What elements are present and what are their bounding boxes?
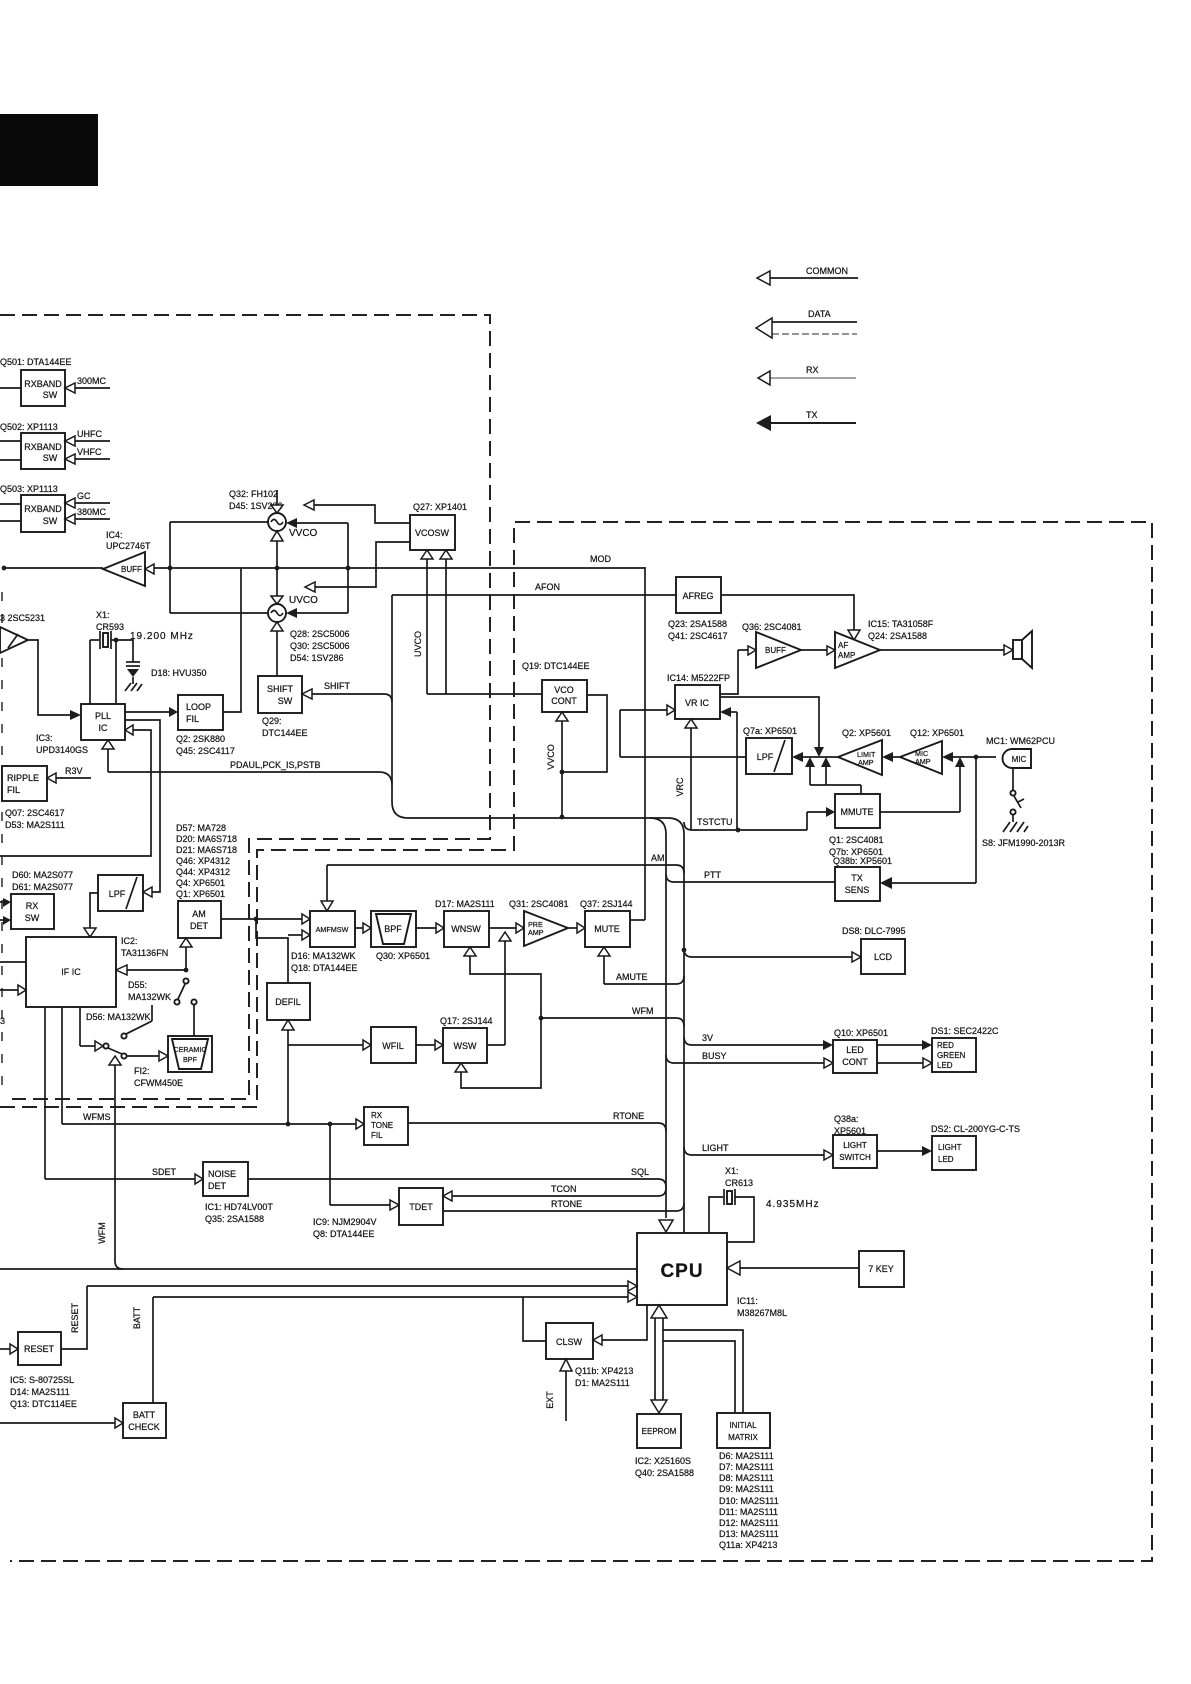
wire BATT to CPU xyxy=(132,1292,637,1403)
svg-text:SDET: SDET xyxy=(152,1167,177,1177)
switch LIGHT SWITCH box xyxy=(833,1135,877,1168)
wire VCOSW bottom pins xyxy=(413,550,542,694)
svg-text:380MC: 380MC xyxy=(77,507,107,517)
svg-text:D16: MA132WK: D16: MA132WK xyxy=(291,951,356,961)
svg-text:PLL: PLL xyxy=(95,711,111,721)
display RED GREEN LED box xyxy=(932,1038,976,1072)
svg-text:Q35: 2SA1588: Q35: 2SA1588 xyxy=(205,1214,264,1224)
svg-text:SW: SW xyxy=(43,453,58,463)
svg-text:RESET: RESET xyxy=(24,1344,55,1354)
wire PLL to LPF xyxy=(125,720,160,897)
svg-text:M38267M8L: M38267M8L xyxy=(737,1308,787,1318)
svg-text:AMP: AMP xyxy=(858,758,874,767)
VCO CONT box xyxy=(542,680,587,712)
wire WFIL to WSW xyxy=(416,1040,443,1050)
bus CPU to EEPROM xyxy=(651,1305,667,1413)
filter LPF left box xyxy=(98,875,143,911)
wires into RX SW xyxy=(0,898,11,925)
svg-text:Q38b: XP5601: Q38b: XP5601 xyxy=(833,856,892,866)
mute MMUTE box xyxy=(835,794,880,828)
driver LED CONT box xyxy=(833,1040,877,1073)
wire AM xyxy=(321,853,684,911)
node 300MC xyxy=(65,376,110,393)
svg-text:MOD: MOD xyxy=(590,554,611,564)
svg-text:BPF: BPF xyxy=(183,1055,198,1064)
svg-text:SW: SW xyxy=(43,516,58,526)
svg-text:EEPROM: EEPROM xyxy=(642,1427,677,1436)
svg-text:UHFC: UHFC xyxy=(77,429,102,439)
svg-text:VHFC: VHFC xyxy=(77,447,102,457)
IC2 IF IC labels xyxy=(121,936,168,958)
wire DEFIL feed xyxy=(256,919,310,983)
svg-text:CONT: CONT xyxy=(551,696,577,706)
wire SDET xyxy=(45,1167,203,1184)
svg-text:RIPPLE: RIPPLE xyxy=(7,773,39,783)
svg-text:IC1: HD74LV00T: IC1: HD74LV00T xyxy=(205,1202,273,1212)
svg-text:SW: SW xyxy=(278,696,293,706)
wire LCD feed xyxy=(682,948,861,962)
filter LPF Q7a box xyxy=(746,738,792,774)
svg-text:Q23: 2SA1588: Q23: 2SA1588 xyxy=(668,619,727,629)
wire VCO CONT bottom VVCO net xyxy=(546,695,607,819)
svg-text:Q28: 2SC5006: Q28: 2SC5006 xyxy=(290,629,350,639)
buffer IC4 label xyxy=(106,530,151,551)
legend COMMON arrow xyxy=(757,266,858,285)
svg-text:Q30: 2SC5006: Q30: 2SC5006 xyxy=(290,641,350,651)
wire into PLL right arrow xyxy=(0,725,151,856)
wire PLL bottom PDAUL xyxy=(102,740,114,772)
svg-text:IC2:: IC2: xyxy=(121,936,138,946)
svg-text:Q4: XP6501: Q4: XP6501 xyxy=(176,878,225,888)
svg-text:Q24: 2SA1588: Q24: 2SA1588 xyxy=(868,631,927,641)
svg-text:7 KEY: 7 KEY xyxy=(868,1264,894,1274)
svg-text:TONE: TONE xyxy=(371,1121,393,1130)
svg-text:Q40: 2SA1588: Q40: 2SA1588 xyxy=(635,1468,694,1478)
svg-text:S8: JFM1990-2013R: S8: JFM1990-2013R xyxy=(982,838,1066,848)
svg-text:D8: MA2S111: D8: MA2S111 xyxy=(719,1473,774,1483)
svg-text:FIL: FIL xyxy=(186,714,199,724)
op-amp PRE AMP xyxy=(524,911,568,946)
svg-text:Q38a:: Q38a: xyxy=(834,1114,859,1124)
switch VCOSW box xyxy=(410,515,455,550)
svg-text:AF: AF xyxy=(838,641,848,650)
dashed border inner / right CPU section xyxy=(0,522,1152,1561)
wire WSW to PRE AMP junction xyxy=(487,932,511,1045)
oscillator UVCO xyxy=(268,595,318,676)
wire LPF into IF IC xyxy=(84,893,98,937)
op-amp Q3 xyxy=(0,627,28,653)
wire audio line LPF left xyxy=(620,756,746,758)
wire RTONE to TDET xyxy=(443,1199,684,1211)
matrix INITIAL MATRIX box xyxy=(717,1413,770,1448)
svg-text:4.935MHz: 4.935MHz xyxy=(766,1199,820,1210)
switch WSW box xyxy=(443,1028,487,1063)
ground D18 xyxy=(125,683,142,691)
wire LIGHT SWITCH to LED xyxy=(877,1146,932,1156)
op-amp LIMIT AMP xyxy=(838,740,900,775)
svg-text:WFIL: WFIL xyxy=(382,1041,404,1051)
svg-text:300MC: 300MC xyxy=(77,376,107,386)
svg-text:PTT: PTT xyxy=(704,870,722,880)
IC2/Q40 labels xyxy=(635,1456,694,1478)
svg-text:D61: MA2S077: D61: MA2S077 xyxy=(12,882,73,892)
svg-text:MIC: MIC xyxy=(1012,755,1027,764)
svg-text:Q41: 2SC4617: Q41: 2SC4617 xyxy=(668,631,728,641)
svg-text:IC3:: IC3: xyxy=(36,733,53,743)
ground S8 xyxy=(1003,822,1028,832)
wire TSTCTU into MMUTE xyxy=(807,807,835,830)
transistor Q23/Q41 labels xyxy=(668,619,728,641)
IC5/D14/Q13 labels xyxy=(10,1375,77,1409)
svg-text:INITIAL: INITIAL xyxy=(729,1421,757,1430)
switch SHIFT SW box xyxy=(258,676,302,713)
svg-text:BATT: BATT xyxy=(133,1410,156,1420)
svg-text:AMFMSW: AMFMSW xyxy=(316,925,349,934)
wire PRE AMP to MUTE xyxy=(568,923,585,933)
IC3 PLL labels xyxy=(36,733,88,755)
svg-text:DEFIL: DEFIL xyxy=(275,997,301,1007)
dashed border left edge xyxy=(1,592,3,1096)
wire MMUTE top risers xyxy=(805,757,861,794)
mute MUTE box xyxy=(585,911,630,947)
svg-text:Q2: 2SK880: Q2: 2SK880 xyxy=(176,734,225,744)
wire 3V xyxy=(684,1033,833,1050)
wires LED CONT to LED xyxy=(877,1040,932,1068)
svg-text:SW: SW xyxy=(43,390,58,400)
bus CPU to INITIAL MATRIX xyxy=(663,1330,743,1413)
svg-text:LPF: LPF xyxy=(757,752,774,762)
svg-text:3: 3 xyxy=(0,1016,5,1026)
svg-text:BUFF: BUFF xyxy=(121,565,142,574)
wire BPF to WNSW xyxy=(416,923,444,933)
svg-text:Q07: 2SC4617: Q07: 2SC4617 xyxy=(5,808,65,818)
wire audio into VR IC xyxy=(620,705,675,757)
wire into CPU left plain xyxy=(0,1268,637,1270)
svg-text:CERAMIC: CERAMIC xyxy=(173,1045,206,1054)
wire PDAUL,PCK_IS,PSTB xyxy=(108,760,392,785)
svg-text:VCOSW: VCOSW xyxy=(415,528,450,538)
wire DEFIL bottom xyxy=(282,1020,294,1124)
svg-text:LIGHT: LIGHT xyxy=(938,1143,962,1152)
svg-text:D1: MA2S111: D1: MA2S111 xyxy=(575,1378,630,1388)
svg-text:RTONE: RTONE xyxy=(551,1199,582,1209)
svg-text:SENS: SENS xyxy=(845,885,870,895)
IF IC box xyxy=(26,937,116,1007)
svg-text:WFM: WFM xyxy=(97,1222,107,1244)
PLL IC box xyxy=(81,704,125,740)
svg-text:IC: IC xyxy=(99,723,109,733)
svg-text:IF IC: IF IC xyxy=(61,967,81,977)
detector NOISE DET box xyxy=(203,1162,248,1196)
svg-text:Q11b: XP4213: Q11b: XP4213 xyxy=(575,1366,633,1376)
svg-text:Q18: DTA144EE: Q18: DTA144EE xyxy=(291,963,357,973)
svg-text:MATRIX: MATRIX xyxy=(728,1433,758,1442)
svg-text:BUSY: BUSY xyxy=(702,1051,727,1061)
svg-text:TX: TX xyxy=(851,873,863,883)
svg-text:D6: MA2S111: D6: MA2S111 xyxy=(719,1451,774,1461)
svg-text:D53: MA2S111: D53: MA2S111 xyxy=(5,820,65,830)
svg-text:D56: MA132WK: D56: MA132WK xyxy=(86,1012,151,1022)
svg-text:LIGHT: LIGHT xyxy=(843,1141,867,1150)
svg-text:Q3 2SC5231: Q3 2SC5231 xyxy=(0,613,45,623)
svg-text:DS8: DLC-7995: DS8: DLC-7995 xyxy=(842,926,906,936)
svg-text:DET: DET xyxy=(208,1181,227,1191)
svg-text:TA31136FN: TA31136FN xyxy=(121,948,168,958)
svg-text:CR593: CR593 xyxy=(96,622,124,632)
svg-text:VVCO: VVCO xyxy=(546,744,556,770)
wire AM DET to AMFMSW xyxy=(221,914,310,924)
node UHFC xyxy=(65,429,110,446)
svg-text:Q8: DTA144EE: Q8: DTA144EE xyxy=(313,1229,374,1239)
cpu IC11 labels xyxy=(737,1296,787,1318)
transistor D57 bank labels xyxy=(176,823,237,899)
crystal X1 CR593 xyxy=(90,631,118,704)
svg-text:D10: MA2S111: D10: MA2S111 xyxy=(719,1496,779,1506)
crystal X1 CR593 labels xyxy=(96,610,194,642)
svg-text:CONT: CONT xyxy=(842,1057,868,1067)
svg-text:DS1: SEC2422C: DS1: SEC2422C xyxy=(931,1026,999,1036)
wire EXT xyxy=(545,1359,572,1421)
reset RESET box xyxy=(0,1332,61,1365)
svg-text:Q1: 2SC4081: Q1: 2SC4081 xyxy=(829,835,884,845)
svg-text:TSTCTU: TSTCTU xyxy=(697,817,733,827)
RXBAND SW 1 box xyxy=(21,370,65,406)
wire CPU to CLSW xyxy=(593,1305,647,1345)
svg-text:RXBAND: RXBAND xyxy=(24,442,62,452)
wire audio line LPF right xyxy=(792,752,838,762)
svg-text:COMMON: COMMON xyxy=(806,266,848,276)
svg-text:D11: MA2S111: D11: MA2S111 xyxy=(719,1507,778,1517)
op-amp BUFF Q36 xyxy=(720,632,801,694)
svg-text:UPD3140GS: UPD3140GS xyxy=(36,745,88,755)
svg-text:RXBAND: RXBAND xyxy=(24,504,62,514)
svg-text:NOISE: NOISE xyxy=(208,1169,236,1179)
svg-text:IC11:: IC11: xyxy=(737,1296,758,1306)
svg-text:SWITCH: SWITCH xyxy=(839,1153,871,1162)
dashed border left RF section xyxy=(0,315,490,1099)
wire MUTE to MOD line xyxy=(630,919,645,921)
svg-text:3V: 3V xyxy=(702,1033,713,1043)
node 380MC xyxy=(65,507,110,524)
svg-text:Q502: XP1113: Q502: XP1113 xyxy=(0,422,58,432)
switch RX SW box xyxy=(11,894,54,929)
wire MIC to TX SENS xyxy=(880,757,976,889)
svg-text:AMP: AMP xyxy=(915,757,931,766)
svg-text:IC5: S-80725SL: IC5: S-80725SL xyxy=(10,1375,74,1385)
svg-text:AMP: AMP xyxy=(838,651,855,660)
wire VVCO left lead xyxy=(170,522,268,613)
legend TX arrow xyxy=(756,410,856,431)
svg-text:GREEN: GREEN xyxy=(937,1051,966,1060)
svg-text:VVCO: VVCO xyxy=(289,528,318,539)
wire into IF IC left arrow xyxy=(0,985,26,995)
wire CLSW branch xyxy=(523,1297,546,1341)
memory EEPROM box xyxy=(637,1414,681,1448)
svg-text:WNSW: WNSW xyxy=(451,924,481,934)
svg-text:Q2: XP5601: Q2: XP5601 xyxy=(842,728,891,738)
switch D55 xyxy=(128,978,197,1036)
wire WNSW mute control xyxy=(464,947,541,1018)
diode D6-D13 labels xyxy=(719,1451,779,1550)
wire Q3 to PLL xyxy=(28,640,81,720)
svg-text:WSW: WSW xyxy=(454,1041,477,1051)
svg-text:Q11a: XP4213: Q11a: XP4213 xyxy=(719,1540,777,1550)
wire AFON xyxy=(392,582,676,595)
wire TCON xyxy=(443,1184,666,1201)
svg-text:DTC144EE: DTC144EE xyxy=(262,728,308,738)
filter DEFIL box xyxy=(267,983,310,1020)
svg-text:PDAUL,PCK_IS,PSTB: PDAUL,PCK_IS,PSTB xyxy=(230,760,321,770)
wire DEFIL to WFIL xyxy=(288,1044,363,1046)
wire SQL xyxy=(248,1167,666,1187)
op-amp AF AMP xyxy=(801,632,880,668)
node VHFC xyxy=(65,447,110,464)
svg-text:MC1: WM62PCU: MC1: WM62PCU xyxy=(986,736,1055,746)
svg-text:Q36: 2SC4081: Q36: 2SC4081 xyxy=(742,622,802,632)
svg-text:X1:: X1: xyxy=(725,1166,739,1176)
svg-text:CLSW: CLSW xyxy=(556,1337,583,1347)
wire TSTCTU xyxy=(684,817,807,832)
svg-text:FI2:: FI2: xyxy=(134,1066,150,1076)
svg-text:D9: MA2S111: D9: MA2S111 xyxy=(719,1484,774,1494)
wires into RXBAND SW 3 xyxy=(0,504,21,521)
svg-text:Q13: DTC114EE: Q13: DTC114EE xyxy=(10,1399,77,1409)
svg-text:TCON: TCON xyxy=(551,1184,577,1194)
wire VR IC output inject xyxy=(720,697,824,757)
wire VCOSW select VVCO xyxy=(304,500,410,523)
svg-text:IC9: NJM2904V: IC9: NJM2904V xyxy=(313,1217,377,1227)
svg-text:VCO: VCO xyxy=(554,685,574,695)
svg-text:CPU: CPU xyxy=(660,1261,703,1282)
transistor Q28/Q30/D54 labels xyxy=(290,629,350,663)
svg-text:RESET: RESET xyxy=(70,1302,80,1333)
wire WFM to CPU xyxy=(539,1006,684,1026)
display LCD box xyxy=(861,939,905,974)
svg-text:D57: MA728: D57: MA728 xyxy=(176,823,226,833)
wire 7 KEY to CPU xyxy=(727,1261,859,1275)
svg-text:RX: RX xyxy=(806,365,819,375)
svg-text:IC15: TA31058F: IC15: TA31058F xyxy=(868,619,934,629)
regulator AFREG box xyxy=(676,577,721,613)
svg-text:SHIFT: SHIFT xyxy=(324,681,351,691)
RXBAND SW 3 box xyxy=(21,495,65,532)
svg-text:BUFF: BUFF xyxy=(765,646,786,655)
svg-text:AM: AM xyxy=(651,853,665,863)
svg-text:Q17: 2SJ144: Q17: 2SJ144 xyxy=(440,1016,493,1026)
wire LOOP FIL output xyxy=(223,568,241,712)
svg-text:AFREG: AFREG xyxy=(682,591,713,601)
legend RX arrow xyxy=(758,365,856,385)
svg-text:LPF: LPF xyxy=(109,889,126,899)
wire WNSW to PRE AMP xyxy=(489,923,524,933)
svg-text:IC4:: IC4: xyxy=(106,530,123,540)
wire into RXBAND SW 1 xyxy=(0,387,21,389)
svg-text:LED: LED xyxy=(938,1155,954,1164)
crystal X1 CR613 xyxy=(709,1189,754,1242)
wire VR IC right input from TSTCTU xyxy=(720,707,737,830)
detector TDET box xyxy=(399,1188,443,1225)
svg-text:IC2: X25160S: IC2: X25160S xyxy=(635,1456,691,1466)
display LIGHT LED box xyxy=(932,1136,976,1170)
transistor Q29 label xyxy=(262,716,308,738)
legend DATA arrow xyxy=(756,309,857,338)
node GC xyxy=(65,491,110,508)
op-amp BUFF IC4 xyxy=(103,552,154,586)
svg-text:RX: RX xyxy=(26,901,39,911)
wire IF IC bottom pins xyxy=(45,1007,80,1179)
switch AMFMSW box xyxy=(310,911,355,947)
svg-text:MMUTE: MMUTE xyxy=(841,807,874,817)
transistor Q1/Q7b labels xyxy=(829,835,884,857)
svg-text:DS2: CL-200YG-C-TS: DS2: CL-200YG-C-TS xyxy=(931,1124,1020,1134)
transistor Q2/Q45 labels xyxy=(176,734,235,756)
switch WNSW box xyxy=(444,911,489,947)
wire TDET feed xyxy=(330,1124,399,1210)
svg-text:IC14: M5222FP: IC14: M5222FP xyxy=(667,673,730,683)
svg-text:Q32: FH102: Q32: FH102 xyxy=(229,489,278,499)
svg-text:LED: LED xyxy=(846,1045,864,1055)
svg-text:DATA: DATA xyxy=(808,309,831,319)
svg-text:AMUTE: AMUTE xyxy=(616,972,648,982)
filter FI2 label xyxy=(134,1066,183,1088)
svg-text:EXT: EXT xyxy=(545,1391,555,1409)
oscillator VVCO xyxy=(268,490,318,596)
wire bus trunk to CPU xyxy=(392,595,684,1233)
svg-text:Q27: XP1401: Q27: XP1401 xyxy=(413,502,467,512)
svg-text:FIL: FIL xyxy=(371,1131,383,1140)
transistor Q32/D45 labels xyxy=(229,489,283,511)
svg-text:Q30: XP6501: Q30: XP6501 xyxy=(376,951,430,961)
wire MOD vertical xyxy=(644,567,646,920)
svg-text:Q12: XP6501: Q12: XP6501 xyxy=(910,728,964,738)
svg-text:Q46: XP4312: Q46: XP4312 xyxy=(176,856,230,866)
wires into RXBAND SW 2 xyxy=(0,441,21,460)
svg-text:D54: 1SV286: D54: 1SV286 xyxy=(290,653,344,663)
svg-text:WFM: WFM xyxy=(632,1006,654,1016)
keypad 7 KEY box xyxy=(859,1251,904,1287)
wire AMUTE xyxy=(598,947,684,984)
svg-text:Q37: 2SJ144: Q37: 2SJ144 xyxy=(580,899,633,909)
op-amp MIC AMP xyxy=(900,741,996,774)
transistor D16/Q18 labels xyxy=(291,951,357,973)
svg-text:Q44: XP4312: Q44: XP4312 xyxy=(176,867,230,877)
svg-text:Q19: DTC144EE: Q19: DTC144EE xyxy=(522,661,590,671)
wire RTONE to CPU xyxy=(408,1111,666,1131)
svg-text:D14: MA2S111: D14: MA2S111 xyxy=(10,1387,70,1397)
svg-text:Q1: XP6501: Q1: XP6501 xyxy=(176,889,225,899)
svg-text:TDET: TDET xyxy=(409,1202,433,1212)
svg-text:BATT: BATT xyxy=(132,1306,142,1329)
wire SHIFT xyxy=(302,681,392,702)
svg-text:D12: MA2S111: D12: MA2S111 xyxy=(719,1518,779,1528)
scanned black label block top-left xyxy=(0,114,98,186)
svg-text:D21: MA6S718: D21: MA6S718 xyxy=(176,845,237,855)
filter RX TONE FIL box xyxy=(356,1107,408,1145)
svg-text:UVCO: UVCO xyxy=(289,595,318,606)
VR IC box xyxy=(675,685,720,719)
svg-text:D17: MA2S111: D17: MA2S111 xyxy=(435,899,495,909)
svg-text:BPF: BPF xyxy=(384,924,402,934)
IC1/Q35 labels xyxy=(205,1202,273,1224)
IC9/Q8 labels xyxy=(313,1217,377,1239)
svg-text:AFON: AFON xyxy=(535,582,560,592)
transistor Q38a label xyxy=(834,1114,866,1136)
svg-text:CR613: CR613 xyxy=(725,1178,753,1188)
transistor D60/D61 labels xyxy=(12,870,73,892)
svg-text:VR IC: VR IC xyxy=(685,698,710,708)
svg-text:D55:: D55: xyxy=(128,980,147,990)
svg-text:Q501: DTA144EE: Q501: DTA144EE xyxy=(0,357,71,367)
